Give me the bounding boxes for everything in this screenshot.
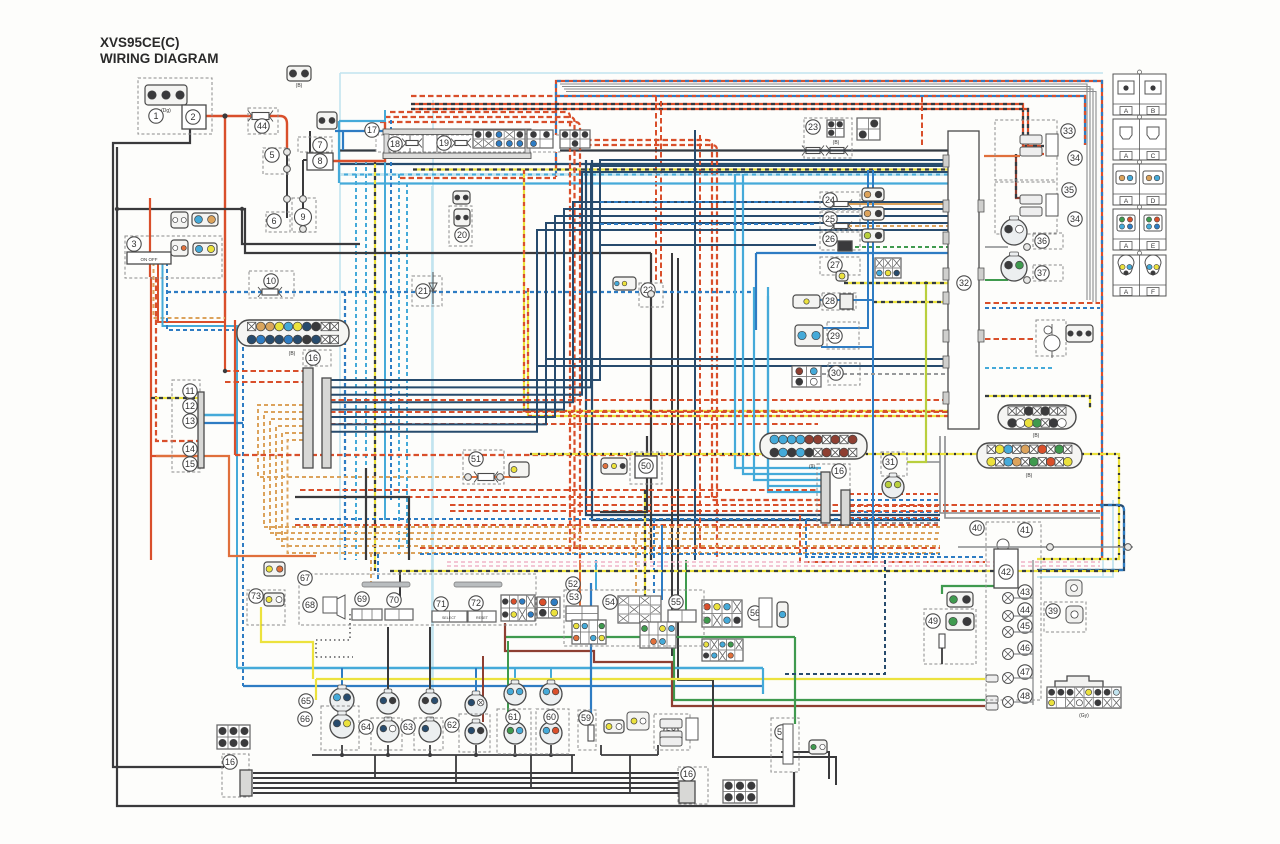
svg-text:(B): (B)	[1026, 473, 1033, 479]
wire teal bus	[340, 149, 948, 151]
frame gray line 4	[566, 92, 1096, 303]
wire red dash 16b	[225, 381, 303, 383]
junction lamp ground 5	[513, 753, 517, 757]
wire orange vert 2	[385, 117, 575, 548]
box 24	[820, 192, 860, 210]
connector 6pin mid	[723, 780, 757, 803]
circle 56	[748, 606, 762, 620]
circle 40	[970, 521, 984, 535]
box 26	[820, 232, 860, 250]
relay block B	[473, 130, 525, 148]
spade 58a	[660, 718, 698, 740]
wire black lamp63	[429, 627, 431, 692]
svg-text:19: 19	[439, 138, 449, 148]
lamp 63a	[419, 689, 441, 714]
wire ground out c	[253, 782, 679, 784]
wire blue vert 873	[872, 170, 874, 230]
circle 16-1	[306, 351, 320, 365]
wire cyan/white bus	[340, 173, 948, 175]
wire ground 58 link b	[713, 680, 836, 785]
junction lamp ground 1	[340, 753, 344, 757]
svg-text:(B): (B)	[289, 351, 296, 357]
wire green lamp61	[507, 641, 509, 722]
svg-text:73: 73	[251, 591, 261, 601]
legend group A-C	[1113, 115, 1166, 160]
wire black 9	[302, 160, 304, 228]
wire orange 229	[156, 456, 316, 556]
connector 55b	[572, 620, 606, 644]
svg-text:69: 69	[357, 594, 367, 604]
switch enclosure 3	[125, 236, 222, 278]
svg-text:53: 53	[569, 592, 579, 602]
connector 51b	[509, 462, 529, 477]
wire blue/red top frame 2	[556, 96, 1085, 177]
connector Dg tail	[1066, 325, 1093, 342]
relay 54	[618, 596, 661, 623]
starter relay 8	[307, 153, 333, 170]
relay 53	[566, 606, 598, 621]
box 11-15	[172, 380, 200, 472]
tail lamp symbol	[1044, 324, 1060, 358]
box 51	[463, 450, 504, 484]
box 65-66	[321, 706, 359, 750]
wire ground bus drop	[530, 755, 532, 788]
svg-text:16: 16	[683, 769, 693, 779]
fuse element 18	[402, 139, 422, 148]
circle 22	[641, 283, 655, 297]
sensor 27	[836, 271, 848, 281]
box 29	[827, 322, 859, 349]
circle 70	[387, 593, 401, 607]
junction red 225	[223, 369, 227, 373]
box 7	[298, 137, 332, 152]
circle 5	[265, 148, 279, 162]
svg-text:E: E	[1151, 243, 1156, 250]
circle 27	[828, 258, 842, 272]
bullet 36	[1024, 244, 1031, 251]
circle 44	[255, 119, 269, 133]
fuse circle 18	[388, 137, 402, 151]
fuse 25	[830, 222, 852, 231]
connector 55c	[640, 622, 676, 648]
svg-text:30: 30	[831, 368, 841, 378]
svg-text:68: 68	[305, 600, 315, 610]
wire band red 548	[420, 547, 940, 549]
circle 42	[999, 565, 1013, 579]
box 67	[299, 574, 536, 625]
svg-text:31: 31	[885, 457, 895, 467]
wire stub lamp 63	[429, 686, 431, 693]
harness pin tick	[943, 330, 949, 342]
wire ground bus drop	[455, 755, 457, 783]
box 36	[1033, 233, 1063, 249]
junction lamp ground 3	[428, 753, 432, 757]
wire cyan 13	[202, 414, 237, 416]
wire tan 24	[848, 203, 948, 205]
faint highlight rectangle top	[340, 73, 1103, 690]
wire blue drop 67	[377, 554, 379, 583]
svg-text:27: 27	[830, 260, 840, 270]
wire black 16 low	[365, 468, 367, 560]
connector 29	[795, 325, 823, 346]
wire red drop 22b	[660, 101, 662, 283]
wire switch drop brown	[154, 262, 226, 318]
frame gray line 2	[562, 87, 1090, 301]
wire ground out e	[253, 792, 679, 794]
wire blue 28	[819, 300, 873, 560]
wire tan fan 5	[282, 433, 940, 546]
wire band red 505	[450, 504, 1100, 506]
bullet 5a	[284, 149, 291, 156]
circle 48	[1018, 689, 1032, 703]
box 64	[371, 718, 402, 750]
circle 43	[1018, 585, 1032, 599]
box 62	[459, 714, 490, 752]
svg-text:F: F	[1151, 289, 1155, 296]
circle 55	[669, 595, 683, 609]
wire ground out d	[253, 787, 679, 789]
wire lamp ground 4	[475, 745, 477, 755]
main fuse box 2	[182, 105, 206, 129]
svg-text:55: 55	[671, 597, 681, 607]
connector 57	[809, 740, 827, 754]
harness pin tick	[943, 392, 949, 404]
svg-text:71: 71	[436, 599, 446, 609]
switch 57	[783, 724, 793, 764]
wire red vert left a	[151, 277, 198, 560]
box 22	[639, 283, 663, 307]
box 49 right	[924, 609, 976, 664]
circle 61	[506, 710, 520, 724]
wire gray 31	[907, 461, 940, 463]
wire green fork	[674, 637, 985, 700]
svg-text:28: 28	[825, 296, 835, 306]
circle 39	[1046, 604, 1060, 618]
wire green long	[505, 636, 795, 638]
wire green 37	[985, 279, 1008, 281]
circle 26	[823, 232, 837, 246]
box 9	[292, 198, 316, 232]
wire orange 8 out	[331, 122, 385, 161]
tiny conn 59b	[627, 712, 649, 730]
wire red vert 225 ext	[224, 320, 226, 371]
conn col 16-3	[240, 770, 252, 796]
fuse circle 19	[437, 136, 451, 150]
fuse box 17 body	[376, 129, 560, 159]
wire band red 511	[450, 510, 1100, 512]
box 16-1	[303, 350, 331, 366]
wire red drop 22a	[655, 96, 657, 283]
svg-text:45: 45	[1020, 621, 1030, 631]
connector 6pin left	[217, 725, 250, 749]
svg-text:44: 44	[257, 121, 267, 131]
wire red vert pair a	[552, 140, 830, 500]
wire black 50	[600, 436, 647, 512]
circle 71	[434, 597, 448, 611]
bulb 47	[1003, 673, 1014, 684]
connector 49a	[947, 592, 973, 607]
svg-text:60: 60	[546, 712, 556, 722]
junction ground	[240, 207, 244, 211]
svg-text:44: 44	[1020, 605, 1030, 615]
wire bulb chain	[1014, 560, 1033, 705]
wire tan fan 4	[276, 426, 940, 539]
svg-text:16: 16	[834, 466, 844, 476]
lamp 60b	[540, 719, 562, 744]
harness pin tick	[943, 232, 949, 244]
switch conn c	[171, 212, 188, 228]
connector 56b	[777, 602, 788, 627]
wire yellow 73	[261, 607, 313, 679]
bulb 43	[1003, 593, 1014, 604]
wire red/black bus 1	[411, 104, 1044, 146]
wire orange vert 1	[390, 112, 570, 555]
wire yellow 27	[844, 282, 948, 284]
wire switch drop cyan	[163, 262, 238, 668]
circle 3	[127, 237, 141, 251]
connector 28	[793, 295, 820, 308]
box 39	[1044, 602, 1086, 632]
circle 67	[298, 571, 312, 585]
wire tan drop 54	[635, 533, 637, 596]
circle 25	[823, 212, 837, 226]
wire navy bundle 6	[330, 216, 948, 417]
connector 56c	[702, 639, 743, 661]
svg-text:42: 42	[1001, 567, 1011, 577]
faint pink band	[447, 565, 1100, 567]
connector Gy 37	[1001, 252, 1027, 281]
wire navy bundle 4	[330, 202, 948, 402]
harness pin tick	[943, 356, 949, 368]
circle 60	[544, 710, 558, 724]
circle 29	[828, 329, 842, 343]
junction lamp ground 4	[474, 753, 478, 757]
svg-text:(B): (B)	[296, 83, 303, 89]
frame gray line 3	[564, 89, 1093, 302]
wire red 455 row	[235, 454, 818, 456]
wire navy vert a	[586, 160, 940, 515]
svg-text:C: C	[1151, 153, 1156, 160]
wire navy vert b	[592, 160, 940, 520]
bullet 37	[1024, 277, 1031, 284]
wire chartreuse	[907, 281, 926, 462]
harness pin tick right	[978, 330, 984, 342]
circle 9	[295, 209, 312, 226]
svg-text:66: 66	[300, 714, 310, 724]
svg-text:5: 5	[269, 150, 274, 160]
box 61	[497, 709, 531, 754]
wire blue 13b	[202, 422, 243, 424]
wire yellow 27 dk	[844, 282, 948, 284]
svg-text:54: 54	[605, 597, 615, 607]
svg-text:RESET: RESET	[476, 616, 489, 620]
svg-text:16: 16	[308, 353, 318, 363]
conn col 16-2a	[821, 472, 830, 523]
wire out16 4	[850, 511, 940, 513]
svg-text:D: D	[1151, 198, 1156, 205]
wire band red 497	[305, 496, 717, 498]
svg-text:A: A	[1124, 198, 1129, 205]
box 16-2	[817, 464, 850, 525]
wire lamp ground 1	[341, 745, 343, 755]
connector Gy 39a	[1066, 580, 1082, 596]
svg-text:14: 14	[185, 444, 195, 454]
svg-text:16: 16	[225, 757, 235, 767]
wire blue 27	[756, 253, 948, 330]
wire yellow drop	[374, 160, 376, 571]
wire 41 line	[958, 546, 1133, 548]
bus bar 67a	[362, 582, 410, 587]
lamp 61a	[504, 680, 526, 705]
wire cyan drop 3	[384, 110, 386, 520]
connector 56a	[702, 600, 742, 627]
wire orange to 33	[984, 155, 1020, 157]
harness pin tick right	[978, 200, 984, 212]
circle 59	[579, 711, 593, 725]
wire cyan drop 2	[365, 160, 367, 560]
circle 47	[1018, 665, 1032, 679]
conn col 16-4	[679, 781, 695, 803]
wire tan fan 1	[258, 405, 467, 477]
circle 11	[183, 384, 197, 398]
wire blue drop 54b	[661, 525, 663, 600]
box 33-34	[995, 120, 1057, 180]
wire yellow 11 black	[151, 397, 198, 399]
svg-text:46: 46	[1020, 643, 1030, 653]
horn 68	[323, 595, 345, 619]
wire black corridor b	[678, 258, 713, 680]
circle 7	[313, 138, 327, 152]
box 16-4	[678, 767, 708, 804]
wire cyan bus2	[340, 182, 948, 184]
switch 71 select	[432, 611, 467, 622]
box 44	[248, 108, 278, 134]
connector 20a	[453, 191, 470, 204]
svg-text:34: 34	[1070, 214, 1080, 224]
bullet 9a	[300, 196, 307, 203]
connector 67 right	[501, 595, 535, 621]
relay 50 body	[635, 456, 657, 478]
box 31	[881, 452, 907, 476]
box 60	[536, 709, 569, 754]
circle 33	[1061, 124, 1075, 138]
wire navy corridor	[694, 130, 696, 560]
pump 26	[838, 241, 852, 251]
connector 30	[792, 366, 821, 387]
bus bar 67b	[454, 582, 502, 587]
circle 58	[664, 724, 678, 738]
wire lamp ground bus	[312, 754, 575, 756]
box 25	[820, 212, 860, 230]
connector B 78	[317, 112, 337, 129]
wire navy bundle 2	[330, 166, 948, 387]
connector B mid-right2	[998, 405, 1076, 429]
wire blue long bottom	[243, 685, 763, 687]
fuse 51	[474, 472, 498, 483]
box 52-55	[564, 590, 704, 646]
wire cyan lamp	[985, 367, 1053, 369]
legend group A-F	[1113, 251, 1166, 296]
wire red 235	[234, 320, 236, 455]
wire blue drop 54	[653, 519, 655, 600]
connector 24	[862, 188, 884, 201]
svg-text:33: 33	[1063, 126, 1073, 136]
svg-text:12: 12	[185, 401, 195, 411]
wire ground bus 2 branch	[117, 209, 651, 253]
wire stub lamp 65	[341, 668, 343, 689]
connector bar 11-15	[198, 392, 204, 468]
circle 57	[775, 725, 789, 739]
wire yellow 51 row	[530, 454, 1119, 559]
wire cyan mid vert 1	[735, 174, 821, 468]
box 57	[771, 718, 799, 772]
svg-text:50: 50	[641, 461, 651, 471]
svg-text:25: 25	[825, 214, 835, 224]
wire tan fan 6	[288, 440, 941, 553]
main fuse 44	[248, 111, 273, 122]
svg-text:67: 67	[300, 573, 310, 583]
circle 53	[567, 590, 581, 604]
circle 54	[603, 595, 617, 609]
svg-text:ON OFF: ON OFF	[141, 257, 158, 262]
svg-text:13: 13	[185, 416, 195, 426]
circle 65	[299, 694, 313, 708]
svg-text:37: 37	[1037, 268, 1047, 278]
wire battery ground black	[113, 124, 224, 767]
wire ground 57 link a	[781, 752, 829, 779]
box 21	[412, 276, 442, 306]
circle 15	[183, 457, 197, 471]
svg-text:17: 17	[367, 125, 377, 135]
spade 33	[1020, 134, 1058, 156]
svg-text:SELECT: SELECT	[442, 616, 457, 620]
connector 20b	[454, 209, 470, 226]
circle 68	[303, 598, 317, 612]
fuse 59	[588, 725, 594, 741]
wire red lamp	[985, 338, 1034, 340]
connector 23	[827, 120, 844, 137]
circle 20	[455, 228, 469, 242]
wire navy 26	[600, 244, 816, 246]
circle 50	[639, 459, 653, 473]
box 28	[822, 293, 856, 310]
connector 31	[882, 473, 904, 498]
svg-text:65: 65	[301, 696, 311, 706]
connector Gy 39b	[1066, 606, 1083, 623]
wire red bundle 412	[330, 411, 948, 413]
ecu connector 9	[760, 433, 867, 459]
svg-text:10: 10	[266, 276, 276, 286]
wire tan fan 3	[270, 419, 940, 533]
fuse box circle 17	[365, 123, 379, 137]
svg-text:72: 72	[471, 598, 481, 608]
wire cyan long bottom	[237, 667, 763, 669]
circle 32	[957, 276, 971, 290]
circle 73	[249, 589, 263, 603]
wire black corridor a	[671, 253, 673, 656]
relay block B2	[527, 130, 553, 148]
wire blue vert 868	[867, 170, 869, 230]
wire stub lamp 62	[475, 668, 477, 695]
wire tan drop 67	[370, 553, 372, 583]
circle 31	[883, 455, 897, 469]
wire black dotted 68	[316, 614, 353, 657]
svg-text:40: 40	[972, 523, 982, 533]
circle 21	[416, 284, 430, 298]
bulb 44	[1003, 611, 1014, 622]
circle 49r	[926, 614, 940, 628]
svg-text:36: 36	[1037, 236, 1047, 246]
